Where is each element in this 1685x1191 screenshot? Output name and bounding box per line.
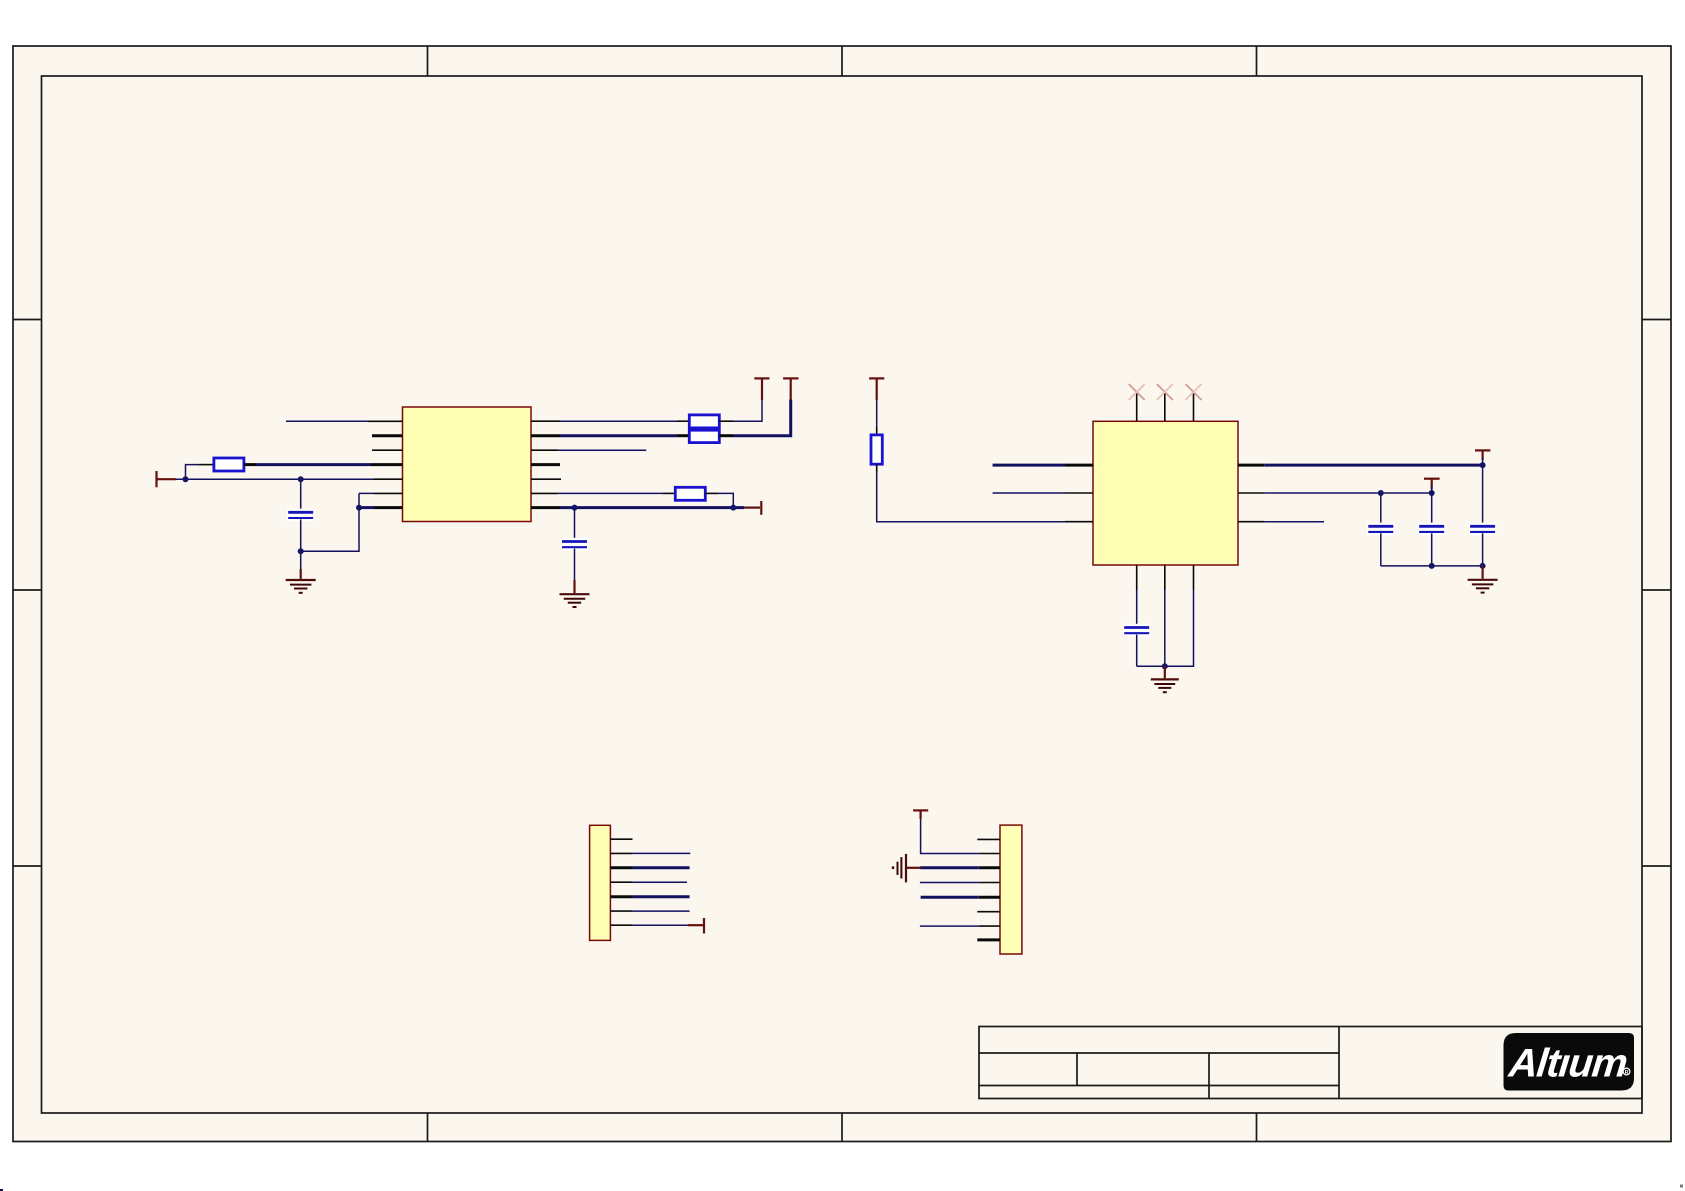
- power terminal P9: [913, 810, 928, 819]
- wire J2 pin 7: [920, 925, 979, 927]
- wire bottom bus caps: [1381, 565, 1483, 567]
- capacitor C5: [1418, 493, 1446, 566]
- wire R5 to U2 pin L3: [877, 472, 1065, 522]
- wire U1 rpin6 to R3: [558, 492, 663, 494]
- no-ERC cross 3: [1186, 384, 1202, 400]
- wire to U1 pin 1: [286, 420, 368, 422]
- U2 left pin L1: [1065, 464, 1093, 467]
- J2 pin 4: [979, 882, 1000, 884]
- wire R3 to junction: [718, 493, 733, 507]
- U2 right pin R3: [1238, 521, 1264, 523]
- U2 bottom pin B2: [1164, 565, 1166, 590]
- U1 right pin 7: [531, 506, 560, 509]
- junction node B: [298, 476, 304, 482]
- zone tick left 3: [13, 865, 42, 867]
- capacitor C6: [1469, 465, 1497, 566]
- J2 pin 2: [979, 853, 1000, 855]
- connector J2 body: [1000, 825, 1022, 954]
- wire J1 pin 3: [632, 866, 690, 869]
- junction pin7 left: [356, 505, 362, 511]
- title block row line 1: [979, 1052, 1339, 1054]
- U2 top pin 2: [1164, 392, 1166, 421]
- U1 left pin 1: [368, 420, 403, 422]
- resistor R3: [663, 487, 718, 500]
- ground GND1: [286, 551, 316, 593]
- U1 left pin 5: [374, 478, 403, 480]
- U1 right pin 6: [531, 492, 558, 494]
- power terminal P1: [157, 471, 177, 487]
- wire pin6 corner down: [358, 493, 360, 507]
- power terminal P4: [744, 501, 761, 515]
- J2 pin 8: [977, 938, 1000, 941]
- no-ERC cross 2: [1157, 384, 1173, 400]
- wire J1 pin 7: [632, 924, 688, 926]
- zone tick top 1: [427, 46, 429, 76]
- junction C5 bottom: [1429, 563, 1435, 569]
- wire C1 bottom to pin7 branch: [301, 508, 359, 552]
- U1 left pin 3: [372, 449, 403, 451]
- U1 left pin 4: [371, 463, 403, 466]
- zone tick right 3: [1642, 865, 1671, 867]
- J2 pin 5: [979, 896, 1000, 899]
- resistor R2: [677, 430, 733, 442]
- title block column divider 2: [1208, 1053, 1210, 1099]
- zone tick top 2: [841, 46, 843, 76]
- wire junction to U1 pin 7: [359, 506, 374, 509]
- zone tick bottom 1: [427, 1113, 429, 1142]
- wire R4 to U1 pin 4: [256, 463, 371, 466]
- resistor R4: [199, 458, 256, 471]
- power terminal P2: [754, 378, 769, 399]
- resistor R1: [677, 415, 733, 428]
- zone tick left 1: [13, 319, 42, 321]
- J2 pin 6: [977, 911, 1000, 913]
- no-ERC cross 1: [1129, 384, 1145, 400]
- capacitor C4: [1367, 493, 1395, 566]
- U2 top pin 3: [1193, 392, 1195, 421]
- wire R2 to power P3: [733, 400, 791, 436]
- capacitor C3: [1123, 590, 1151, 666]
- wire U2 pin L1: [993, 464, 1065, 467]
- J1 pin 1: [610, 838, 632, 840]
- svg-text:Altıum: Altıum: [1506, 1042, 1629, 1086]
- wire J1 pin 5: [632, 895, 690, 898]
- title block column divider 3: [1338, 1027, 1340, 1099]
- wire J1 pin 6: [632, 910, 690, 912]
- page corner mark bottom-left: [0, 1189, 3, 1191]
- wire U2 pin L2: [993, 492, 1065, 494]
- wire U2 pin B2 down: [1164, 590, 1166, 666]
- ground GND5 sideways: [892, 854, 921, 883]
- capacitor C1: [287, 479, 315, 551]
- U2 left pin L3: [1065, 521, 1093, 523]
- svg-text:R: R: [1625, 1070, 1629, 1076]
- capacitor C2: [561, 508, 589, 581]
- wire U1 rpin1 to R1: [560, 420, 677, 422]
- wire U2 pin R2 to caps: [1264, 492, 1431, 494]
- J1 pin 3: [610, 866, 632, 869]
- wire J2 pin 2 to power: [921, 818, 979, 854]
- IC U1 body: [403, 407, 532, 522]
- junction C1 bottom: [298, 548, 304, 554]
- wire U1 rpin2 to R2: [560, 434, 677, 437]
- connector J1 body: [590, 825, 611, 940]
- ground GND3: [1151, 666, 1179, 692]
- wire R1 to power P2: [733, 400, 762, 422]
- junction node A: [183, 476, 189, 482]
- zone tick bottom 3: [1256, 1113, 1258, 1142]
- wire P5 to R5: [876, 400, 878, 428]
- U2 left pin L2: [1065, 492, 1093, 494]
- junction C4 top: [1378, 490, 1384, 496]
- J2 pin 3: [979, 866, 1000, 869]
- wire J2 pin 4: [920, 882, 979, 884]
- wire J1 pin 4: [632, 881, 687, 883]
- wire U1 pin 6: [359, 492, 374, 494]
- junction C5 top: [1429, 490, 1435, 496]
- wire P6 to junction: [1482, 458, 1484, 465]
- wire U1 rpin7 to power P4: [560, 506, 744, 509]
- U1 right pin 5: [531, 478, 561, 480]
- junction C2 top: [572, 505, 578, 511]
- power terminal P3: [783, 378, 798, 399]
- resistor R5: [871, 427, 882, 472]
- U1 left pin 7: [374, 506, 403, 509]
- wire U2 pin R3 open: [1264, 521, 1324, 523]
- wire node A to R4: [186, 465, 200, 480]
- wire U2 pin R1 to C6 node: [1264, 464, 1482, 467]
- power terminal P5: [869, 378, 884, 399]
- zone tick left 2: [13, 589, 42, 591]
- U2 bottom pin B1: [1136, 565, 1138, 590]
- wire U1 rpin3 open: [558, 449, 646, 451]
- zone tick bottom 2: [841, 1113, 843, 1142]
- page corner mark bottom-right: [1680, 1185, 1683, 1188]
- J1 pin 4: [610, 881, 632, 883]
- J1 pin 2: [610, 852, 632, 854]
- J1 pin 7: [610, 924, 632, 926]
- wire J2 pin 3: [920, 866, 979, 869]
- zone tick right 2: [1642, 589, 1671, 591]
- J1 pin 6: [610, 910, 632, 912]
- U2 right pin R1: [1238, 464, 1264, 467]
- wire J2 pin 5: [921, 896, 979, 899]
- J1 pin 5: [610, 895, 632, 898]
- U1 right pin 1: [531, 420, 560, 422]
- wire P7 to junction: [1431, 486, 1433, 493]
- U2 top pin 1: [1136, 392, 1138, 421]
- power terminal P8: [688, 918, 704, 934]
- U2 right pin R2: [1238, 492, 1264, 494]
- power terminal P7: [1424, 479, 1440, 489]
- U1 right pin 4: [531, 463, 560, 466]
- power terminal P6: [1475, 450, 1490, 460]
- junction C6 bottom: [1480, 563, 1486, 569]
- title block row line 2: [979, 1085, 1339, 1087]
- J2 pin 7: [979, 925, 1000, 927]
- junction R1 node: [1480, 462, 1486, 468]
- title block outline: [979, 1027, 1642, 1099]
- IC U2 body: [1093, 421, 1238, 565]
- J2 pin 1: [977, 838, 1000, 840]
- ground GND2: [560, 580, 590, 607]
- wire J1 pin 2: [632, 852, 690, 854]
- zone tick top 3: [1256, 46, 1258, 76]
- zone tick right 1: [1642, 319, 1671, 321]
- junction rpin7: [730, 505, 736, 511]
- U1 left pin 6: [374, 492, 403, 494]
- ground GND4: [1468, 566, 1498, 593]
- title block column divider 1: [1076, 1053, 1078, 1086]
- wire U2 pin B3 down: [1165, 590, 1194, 666]
- U1 right pin 3: [531, 449, 558, 451]
- U1 left pin 2: [372, 434, 403, 437]
- U1 right pin 2: [531, 434, 560, 437]
- U2 bottom pin B3: [1193, 565, 1195, 590]
- Altium logo: [1504, 1033, 1635, 1091]
- wire terminal to U1 pin 5: [166, 478, 374, 480]
- junction ground node: [1162, 663, 1168, 669]
- wire C3 bottom to ground node: [1137, 665, 1165, 667]
